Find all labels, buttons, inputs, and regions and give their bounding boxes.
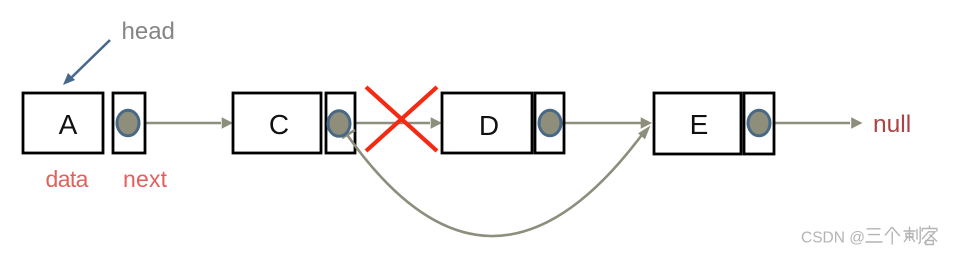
svg-text:null: null <box>873 111 911 138</box>
svg-text:D: D <box>479 110 499 141</box>
svg-text:CSDN @: CSDN @ <box>801 230 865 247</box>
svg-text:E: E <box>690 109 709 140</box>
svg-text:A: A <box>59 109 78 140</box>
svg-text:data: data <box>46 166 89 192</box>
svg-text:C: C <box>269 109 289 140</box>
svg-text:head: head <box>122 18 175 45</box>
svg-text:next: next <box>123 166 168 192</box>
